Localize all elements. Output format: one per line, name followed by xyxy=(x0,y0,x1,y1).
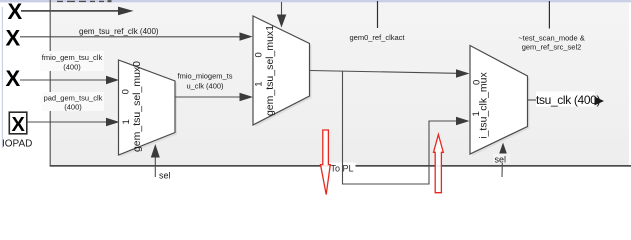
panel bottom border xyxy=(50,165,631,167)
wire X2 to mux1 input 0 xyxy=(20,36,241,38)
arrowhead into mux0 pin 0 xyxy=(106,76,119,84)
label sel (mux2) xyxy=(493,154,510,165)
svg-text:gem_tsu_sel_mux0: gem_tsu_sel_mux0 xyxy=(131,61,143,152)
svg-text:(400): (400) xyxy=(63,63,81,72)
sel wire into mux2 xyxy=(501,155,504,177)
svg-text:tsu_clk (400): tsu_clk (400) xyxy=(536,93,600,107)
svg-text:gem0_ref_clkact: gem0_ref_clkact xyxy=(349,33,405,42)
svg-text:IOPAD: IOPAD xyxy=(2,139,32,150)
svg-text:~test_scan_mode &: ~test_scan_mode & xyxy=(518,34,585,43)
svg-text:fmio_gem_tsu_clk: fmio_gem_tsu_clk xyxy=(42,53,103,62)
arrowhead into mux2 pin 0 xyxy=(456,69,470,77)
svg-text:fmio_miogem_ts: fmio_miogem_ts xyxy=(177,72,232,81)
signal stub gem0_ref_clkact xyxy=(377,1,379,28)
top blue band xyxy=(0,0,631,2)
arrowhead into mux0 pin 1 xyxy=(106,118,120,126)
red annotation arrow down (To PL) xyxy=(321,130,331,195)
svg-text:sel: sel xyxy=(159,171,171,181)
net label fmio_gem_tsu_clk (400) xyxy=(40,51,104,72)
svg-text:gem_tsu_sel_mux1: gem_tsu_sel_mux1 xyxy=(264,25,276,116)
net label pad_gem_tsu_clk (400) xyxy=(42,92,104,112)
left faint blue rule xyxy=(2,7,3,148)
net label fmio_miogem_tsu_clk (400) xyxy=(177,72,232,91)
svg-text:1: 1 xyxy=(253,81,264,86)
svg-text:pad_gem_tsu_clk: pad_gem_tsu_clk xyxy=(44,94,103,103)
label tsu_clk (400) xyxy=(536,92,600,108)
arrowhead tsu_clk output xyxy=(595,97,605,106)
svg-text:gem_tsu_ref_clk (400): gem_tsu_ref_clk (400) xyxy=(79,27,159,36)
svg-text:X: X xyxy=(6,25,21,50)
svg-text:0: 0 xyxy=(254,52,265,57)
arrowhead into mux1 pin 1 xyxy=(240,93,254,101)
wire mux0 output to mux1 input 1 xyxy=(175,96,241,98)
svg-text:(400): (400) xyxy=(64,103,82,112)
sel wire into mux0 xyxy=(154,157,156,177)
svg-text:X: X xyxy=(12,114,26,136)
mux gem_tsu_sel_mux1 xyxy=(253,16,312,127)
arrowhead into mux2 pin 1 xyxy=(456,117,470,125)
svg-text:i_tsu_clk_mux: i_tsu_clk_mux xyxy=(478,71,490,138)
arrowhead down into mux1 xyxy=(277,15,287,28)
svg-text:sel: sel xyxy=(495,155,507,165)
wire X3 to mux0 input 0 xyxy=(20,79,107,81)
arrowhead sel mux0 xyxy=(151,144,160,158)
wire X4 to mux0 input 1 xyxy=(27,121,107,123)
mux i_tsu_clk_mux xyxy=(470,46,530,157)
pad X4 IOPAD box xyxy=(9,112,27,134)
svg-text:gem_ref_src_sel2: gem_ref_src_sel2 xyxy=(522,43,582,52)
wire mux1 output to mux2 input 0 xyxy=(310,71,458,74)
mux gem_tsu_sel_mux0 xyxy=(119,60,178,157)
output wire tsu_clk xyxy=(528,99,539,101)
wire from top into mux1 select xyxy=(281,2,283,15)
svg-text:0: 0 xyxy=(121,89,132,94)
wire branch down to PL and back up to mux2 input 1 xyxy=(343,71,458,184)
panel left border xyxy=(50,0,51,166)
red annotation arrow up (sel path) xyxy=(434,135,444,193)
svg-text:X: X xyxy=(8,0,23,24)
arrowhead X1 xyxy=(118,7,134,16)
signal stub test_scan_mode xyxy=(548,1,550,29)
label To PL xyxy=(330,163,356,175)
arrowhead sel mux2 xyxy=(499,143,508,156)
cut-off marks at top edge xyxy=(57,0,112,2)
arrowhead into mux1 pin 0 xyxy=(240,32,253,40)
svg-text:u_clk (400): u_clk (400) xyxy=(186,82,224,91)
svg-text:X: X xyxy=(6,66,21,91)
gray schematic panel xyxy=(50,2,629,166)
wire X1 to arrow xyxy=(21,10,120,12)
